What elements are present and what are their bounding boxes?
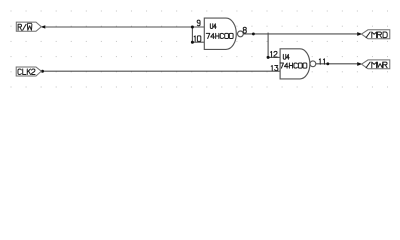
port flag R/W: [16, 22, 41, 31]
label CLK2: [18, 69, 35, 75]
junction dot at CLK2 flag tip: [41, 70, 44, 73]
value 74HC00 (gate2): [280, 63, 307, 68]
wire pin12 stub: [268, 56, 280, 58]
junction dot on gate2 output wire: [326, 62, 329, 65]
pin number 12: [271, 51, 278, 57]
arrowhead at /MWR flag: [357, 62, 362, 66]
junction dot at pin9 tie: [191, 26, 194, 29]
port flag /MRD: [362, 30, 390, 39]
arrowhead at /MRD flag: [357, 32, 362, 36]
wire vertical tie pin9 to pin10: [191, 27, 193, 42]
junction dot at pin10 corner: [191, 41, 194, 44]
label /MRD: [366, 32, 387, 38]
wire R/W net to gate1 pin 9: [45, 26, 204, 28]
grid dots: [11, 11, 389, 88]
refdes U4 (gate2): [283, 54, 289, 59]
nand gate U4B output bubble pin 11: [310, 61, 316, 67]
nand gate U4A output bubble pin 8: [238, 31, 244, 37]
refdes U4 (gate1): [210, 24, 216, 29]
pin number 13: [271, 66, 278, 71]
nand gate U4B body: [280, 49, 310, 79]
junction dot on gate1 output wire: [252, 32, 255, 35]
port flag /MWR: [362, 60, 390, 69]
wire gate1 output pin8 to /MRD: [243, 33, 357, 35]
nand gate U4A body: [204, 18, 236, 49]
pin number 8: [243, 27, 246, 33]
pin number 11: [319, 59, 324, 65]
label /MWR: [366, 62, 387, 68]
junction dot at pin12 corner: [267, 56, 270, 59]
wire pin10 stub: [192, 41, 204, 43]
arrowhead at R/W flag: [41, 25, 46, 28]
port flag CLK2: [16, 67, 41, 76]
wire vertical drop to pin12: [267, 33, 269, 58]
wire gate2 output pin11 to /MWR: [316, 63, 358, 65]
pin number 9: [197, 20, 200, 26]
label R/W: [18, 24, 32, 30]
value 74HC00 (gate1): [206, 33, 233, 38]
pin number 10: [194, 36, 201, 42]
wire CLK2 net to gate2 pin 13: [42, 70, 280, 72]
overline over W of R/W: [27, 22, 32, 24]
